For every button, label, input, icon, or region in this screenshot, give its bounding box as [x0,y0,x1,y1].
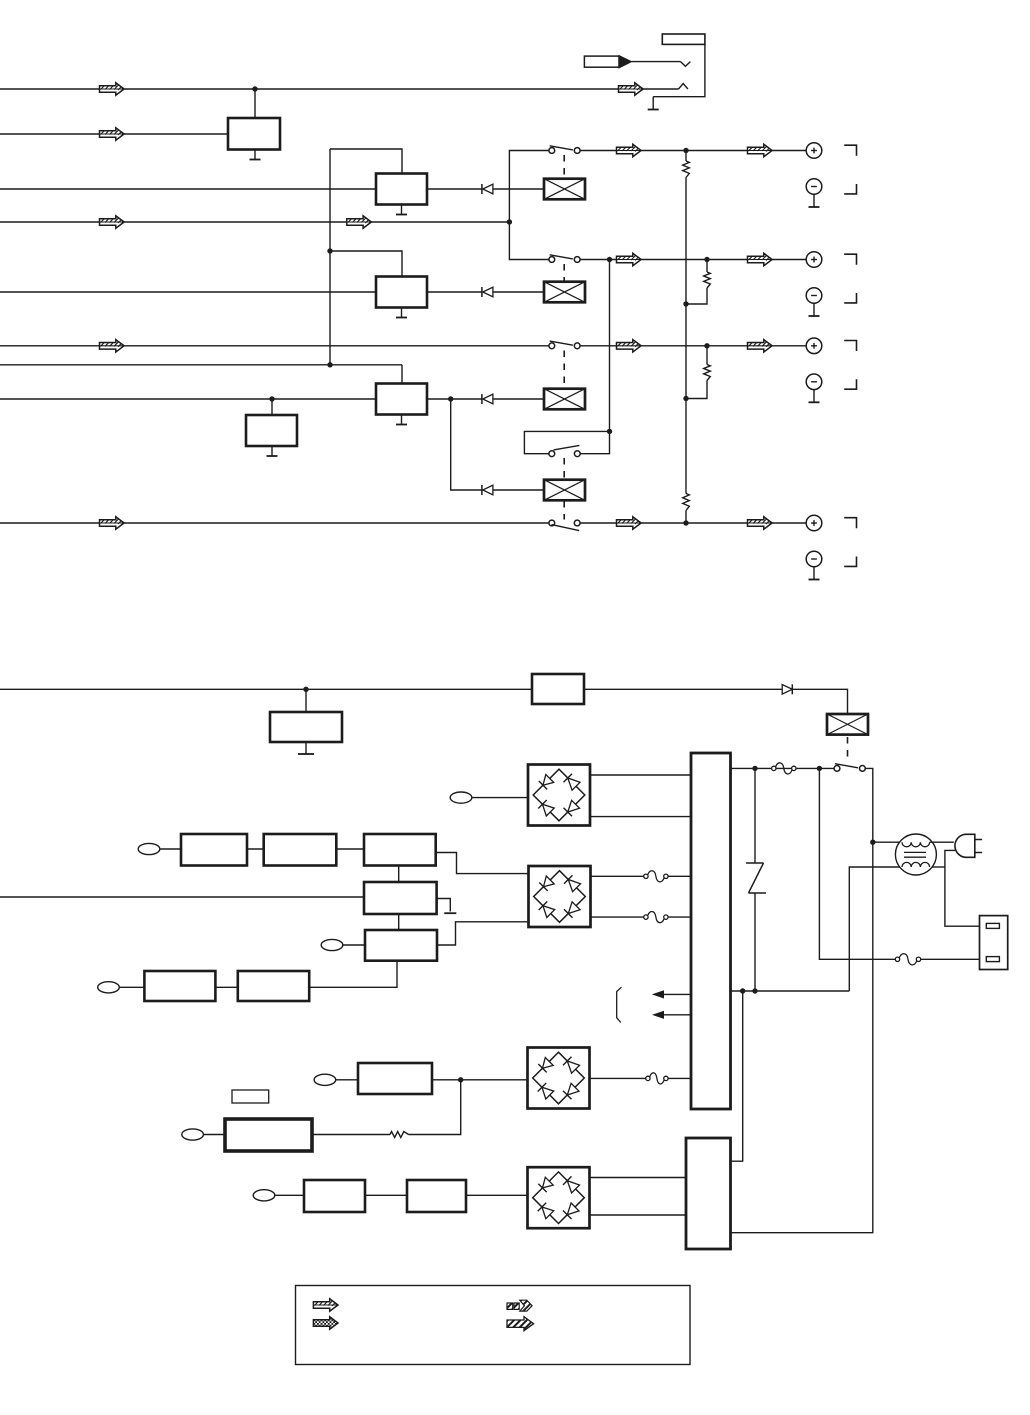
wire D3 to relay coil RY3 [493,398,544,400]
jack switch contact (v) [681,62,691,67]
wire to jack switch contact [632,61,681,63]
relay contact switch row1 [549,148,555,154]
ground below box1 [401,205,403,215]
negative output terminal row1 [806,179,822,195]
control arrow 1 from power block [663,993,691,995]
wire boxA-boxB [247,848,264,850]
driver block box1 [376,174,427,205]
interlock switch contacts [549,451,555,457]
relay coil RY4 [544,480,585,501]
block boxH [358,1063,432,1094]
headphone jack tip terminal [662,34,705,44]
wire S1 input line [0,688,532,690]
diode D4 [481,485,483,495]
wire BR3 out [589,1077,648,1079]
headphone jack frame [653,44,705,96]
power transformer T1 [895,834,936,875]
speaker brackets row4 [844,518,856,529]
bus vertical x686 [685,178,687,494]
wire R8 input to box3 [0,398,376,400]
node R8/hang box [269,396,274,401]
speaker brackets row2 [844,254,856,265]
signal-flow arrow row4 [617,517,642,529]
resistor R-h [390,1132,409,1138]
wire BR4 out bottom [589,1214,686,1216]
wire after switch row4 [580,522,806,524]
ground at jack [652,97,654,110]
wire D1 to relay coil RY1 [493,188,544,190]
block boxB [264,834,337,866]
node loop/x609 [607,429,612,434]
signal-flow arrow row3 [617,340,642,352]
wire boxP feed [305,689,307,712]
bridge rectifier BR1 [528,765,590,826]
block boxG [238,971,309,1001]
connector ellipse bridge1 input [450,792,472,803]
wire BR4 out top [589,1177,686,1179]
relay coil RY3 [544,389,585,410]
relay dashed link RY4 lower [563,501,565,520]
block boxD [364,882,437,914]
connector ellipse chain A [138,843,160,854]
AC plug [955,834,975,857]
legend arrow type3 [507,1300,532,1311]
node R4/x509 [507,219,512,224]
varistor branch lower [754,893,756,991]
node row4/x686 [683,520,688,525]
wire boxH to bridge3 [432,1079,528,1081]
bus vertical x509 [509,151,549,260]
fuse F4 [644,915,648,919]
relay dashed link RY3 [563,351,565,389]
wire boxB-boxC [336,848,364,850]
node x686 row2 return [683,301,688,306]
negative output terminal row3 [806,374,822,390]
power switch contacts [834,766,840,772]
outlet branch vertical [819,768,895,959]
connector ellipse chain F [98,982,120,993]
wire ellipse to boxK [203,1134,225,1136]
wire ellipse to boxH [336,1079,358,1081]
resistor on x686 row4 [683,494,690,511]
signal-flow arrow row4 [748,517,773,529]
wire box3 top feed [401,365,403,384]
bus vertical x330 [329,149,331,365]
wire R2 input line [0,133,228,135]
bracket mark [617,987,622,1022]
relay dashed link RY5 [847,737,849,762]
wire BR2 out bottom [590,916,646,918]
wire S2 input line [0,896,364,898]
bridge rectifier BR2 [529,866,591,927]
wire after switch row3 [580,345,806,347]
wire ellipse to boxE [343,944,365,946]
diode D5 [782,685,792,695]
wire switch to down bus [731,768,873,1232]
connector ellipse boxE [321,939,343,950]
wire BR1 out top [590,774,691,776]
wire box0 top feed [254,89,256,118]
ground below box0 [254,150,256,160]
relay coil RY1 [544,179,585,200]
relay contact switch row4 [549,520,555,526]
resistor row3 [706,346,708,365]
wire hang box feed [271,399,273,415]
ground below box3 [401,415,403,425]
legend arrow type2 [313,1317,338,1329]
signal-flow arrow on R4 mid [347,216,372,228]
signal-flow arrow row1 [748,144,773,156]
wire block2 branch [731,991,743,1161]
negative output terminal row4 [806,551,822,567]
bridge rectifier BR4 [528,1167,590,1228]
secondary row from transformer block [731,990,850,992]
wire box2 to diode D2 [427,291,482,293]
power block (tall) [691,753,731,1109]
secondary block block2 [686,1138,731,1249]
speaker brackets row3 [844,341,856,352]
wire after switch row1 [580,150,806,152]
wire resistor to branch [409,1080,461,1135]
positive output terminal row2 [806,252,822,268]
wire to transformer primary [873,841,902,843]
wire box1 top feed [330,149,402,174]
varistor branch upper [754,768,756,863]
node S1/boxP [303,687,308,692]
node x686 row3 return [683,396,688,401]
wire BR2 out top [590,875,646,877]
connector ellipse boxI [253,1190,275,1201]
wire ellipse to bridge1 [472,797,528,799]
relay coil RY2 [544,282,585,303]
legend box [296,1286,691,1365]
wire ellipse to boxA [160,848,181,850]
wire boxC to bridge2 top input [436,853,529,874]
block boxK (bold) [225,1119,312,1151]
wire ellipse to boxI [275,1194,304,1196]
jack contact tip (R1) [679,84,688,89]
block boxF [144,971,215,1001]
signal-flow arrow row1 [617,144,642,156]
interlock switch loop [524,431,609,453]
connector ellipse boxH [314,1074,336,1085]
wire plug neutral down [945,850,986,926]
signal-flow arrow on R1 right [619,83,644,95]
legend arrow type4 [507,1317,534,1331]
node row1/x686 [683,148,688,153]
bridge rectifier BR3 [528,1048,590,1109]
node row3 resistor tap [704,343,709,348]
block box0 [228,118,280,150]
wire fuse to outlet bottom slot [921,958,987,960]
node row2 resistor tap [704,257,709,262]
relay contact switch row3 [549,343,555,349]
relay coil RY5 (power) [827,714,868,735]
node x330/box2 feed [327,248,332,253]
signal-flow arrow on R4 left [100,216,125,228]
ground below box2 [401,308,403,318]
speaker brackets row1 [844,145,856,156]
wire boxI-boxJ [365,1194,407,1196]
wire box2 top feed [330,251,402,277]
block boxA [181,834,247,866]
small box (thin) [232,1090,269,1103]
node secondary row / block2 branch [740,988,745,993]
diode D1 [481,184,483,194]
node boxH branch [458,1077,463,1082]
wire R4 input line [0,221,509,223]
wire F5 to block [668,1077,691,1079]
wire ellipse to boxF [119,986,144,988]
wire R9 input to relay switch 4 [0,522,549,524]
link boxD-boxE [398,914,400,930]
driver block box3 [376,384,427,415]
ground below hang box [271,446,273,456]
resistor row2 [706,260,708,273]
wire R6 input to relay switch 3 [0,345,549,347]
positive output terminal row3 [806,338,822,354]
node row2/x609 [607,257,612,262]
negative output terminal row2 [806,288,822,304]
AC outlet [980,916,1008,970]
node junction R1/box0 [252,86,257,91]
node D3 branch [448,396,453,401]
wire boxJ to bridge4 [466,1194,528,1196]
wire boxF-boxG [215,986,237,988]
fuse F3 [644,874,648,878]
wire F4 to block [668,916,691,918]
diode D3 [481,394,483,404]
wire secondary row up to transformer [849,867,900,991]
signal-flow arrow row3 [748,340,773,352]
wire boxG to boxE bottom [309,961,397,988]
wire D5 to relay coil RY5 [792,689,847,714]
block boxQ [532,674,584,704]
fuse F1 on AC row [772,766,776,770]
wire transformer to plug [930,841,954,843]
signal-flow arrow on R9 [100,517,125,529]
node transformer primary top [870,840,875,845]
wire R7 feed line [0,364,402,366]
muting signal arrow (filled) [584,56,619,67]
AC row from transformer block [731,767,835,769]
wire transformer bottom to neutral [932,866,945,868]
wire F3 to block [668,875,691,877]
control arrow 2 from power block [663,1014,691,1016]
wire R1 top line to headphone jack [0,88,679,90]
relay contact switch row2 [549,257,555,263]
signal-flow arrow on R6 [100,340,125,352]
signal-flow arrow row2 [748,253,773,265]
fuse F2 outlet fuse [895,957,899,961]
wire BR1 out bottom [590,816,691,818]
bus vertical x609 [609,260,611,432]
legend arrow type1 [313,1299,338,1311]
connector ellipse boxK [182,1129,204,1140]
block boxE [365,930,437,961]
wire boxE to bridge2 bottom input [437,922,529,945]
varistor Z symbol [746,862,764,864]
signal-flow arrow row2 [617,253,642,265]
resistor on x686 row1 [683,161,690,178]
signal-flow arrow on R1 left [100,83,125,95]
relay dashed link RY2 [563,264,565,282]
wire D2 to relay coil RY2 [493,291,544,293]
driver block box2 [376,277,427,308]
fuse F5 [646,1076,650,1080]
node x330/R7 [327,362,332,367]
relay dashed link RY4 (to interlock switch) [563,458,565,480]
relay dashed link RY1 [563,155,565,179]
wire branch to D4 [451,399,482,490]
diode D2 [481,287,483,297]
block boxJ [407,1180,466,1212]
link boxC-boxD [398,866,400,883]
wire R5 input to box2 [0,291,376,293]
node AC row / varistor branch [752,766,757,771]
block below R8 [246,415,297,446]
wire D4 to relay coil RY4 [493,489,544,491]
node AC row / outlet branch [817,766,822,771]
block boxI [304,1180,365,1212]
wire x686 bottom [685,511,687,524]
block boxP [270,712,342,742]
positive output terminal row4 [806,515,822,531]
wire box3 to diode D3 [427,398,482,400]
signal-flow arrow on R2 [100,128,125,140]
wire boxQ to diode D5 [584,688,782,690]
wire R3 input to box1 [0,188,376,190]
ground stub boxD [437,899,451,912]
wire after switch row2 [580,259,806,261]
wire box1 to diode D1 [427,188,482,190]
block boxC [364,834,436,866]
wire boxK to resistor [312,1134,390,1136]
node secondary row / varistor [752,988,757,993]
positive output terminal row1 [806,143,822,159]
ground below boxP [305,742,307,754]
